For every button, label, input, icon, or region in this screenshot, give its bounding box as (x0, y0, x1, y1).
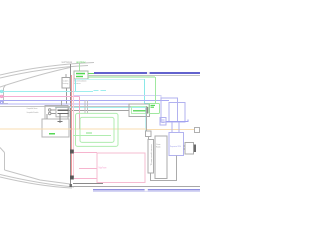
dark element in G2 (146, 107, 148, 114)
contact circle 1 (49, 109, 51, 111)
wire pink to fridge mid (79, 167, 97, 169)
svg-text:Compatible Schedule: Compatible Schedule (27, 111, 40, 114)
cyan dash 1 (94, 90, 99, 92)
hull deck sheer line upper (0, 63, 94, 76)
hull deck sheer line lower (0, 66, 88, 79)
wires B3 to B4 (184, 145, 186, 147)
raymarine box B3 (169, 133, 184, 156)
heating loop innermost line (73, 134, 111, 136)
heating loop inner rect (80, 117, 114, 142)
svg-text:Fridge Freezer: Fridge Freezer (99, 167, 107, 170)
junction node black upper (70, 150, 74, 154)
contact wire 2 (51, 113, 56, 115)
wire green G1 to bus bar (88, 72, 94, 74)
contact wire 1 (51, 109, 56, 111)
tick gap on bottom bus (145, 189, 148, 191)
svg-text:heatng: heatng (63, 82, 69, 85)
connector box at right end of orange (195, 128, 200, 133)
svg-text:Compatible Server: Compatible Server (27, 107, 38, 110)
bright green bar in GB (133, 110, 146, 112)
leader wire above controller (65, 74, 67, 78)
wire red vertical pair line 1 (71, 75, 73, 177)
wire blue under B1 (166, 120, 188, 122)
heating loop outer rect (76, 113, 119, 146)
wire dark keel line (73, 182, 103, 184)
wire magenta bus y96 (0, 95, 80, 97)
svg-text:Lamp Dimmer: Lamp Dimmer (76, 61, 86, 64)
bow stem diagonal (4, 85, 6, 88)
keel front vertical (4, 153, 6, 171)
wire light cyan y79 (76, 78, 144, 80)
node cyan terminal left edge (0, 90, 2, 92)
node purple terminal left edge (0, 101, 2, 103)
hull chine line bow (0, 68, 70, 88)
instrument gray box GB (129, 104, 150, 117)
keel slant line (5, 170, 71, 184)
wire bottom DC bus light (93, 191, 200, 193)
wire cyan branch down x145.5 (145, 108, 147, 131)
svg-text:Radio: Radio (156, 147, 161, 149)
dark bar on B4 (194, 145, 196, 153)
blue small box B2 (160, 118, 166, 126)
fridge box (pink) (97, 153, 145, 183)
transducer tall box T1 (148, 140, 154, 174)
wire gray under top bus (88, 75, 200, 77)
wire gray bus y106 (0, 105, 146, 107)
tall box T3 (155, 136, 167, 179)
small box SB above transducer (146, 131, 152, 137)
wire bottom DC bus blue (93, 189, 200, 191)
blue instrument box Q (169, 103, 185, 123)
wire pink vertical pair line 2 (73, 75, 75, 177)
keel bow diagonal (0, 148, 5, 153)
thin gray verticals under lamp dimmer (84, 100, 86, 113)
wire blue main DC bus top (94, 72, 200, 74)
wire cyan bus y107.5 (55, 107, 146, 109)
wire cyan vertical right x144 (145, 79, 151, 104)
wire cyan vertical at lamp dimmer (75, 79, 77, 91)
wire B1 to B3 left (171, 122, 173, 133)
wire lavender bus y95.6 (74, 95, 161, 98)
hull bottom curve upper (0, 175, 74, 188)
wire pink vertical x79.5 (79, 96, 81, 129)
wire cyan bus left y91 (0, 90, 93, 92)
wire bottom connector of T boxes (151, 156, 177, 181)
green inner rect in GB (132, 107, 148, 114)
green label inside K2 (49, 133, 55, 135)
busbar block inside K1 (56, 107, 69, 117)
lamp dimmer box U1 (74, 71, 88, 79)
wire green lighting bus B (88, 76, 155, 78)
wire orange bus (0, 128, 195, 131)
wire purple bus 1 y100.7 (0, 100, 169, 102)
cabin heating controller box U2 (62, 78, 70, 89)
green vertical from lighting bus x155 (154, 77, 156, 104)
svg-text:Raymarine ST60: Raymarine ST60 (170, 145, 182, 148)
blue instrument box P (161, 98, 178, 122)
wire from controller down (67, 88, 71, 104)
stub wire K1 to K2 b with bar (59, 114, 61, 123)
relay box K1 (45, 106, 68, 120)
wire pink to fridge bottom (74, 177, 97, 179)
wire pink to fridge top (74, 151, 97, 153)
node magenta terminal left edge (0, 95, 2, 97)
battery box K2 (42, 119, 69, 137)
bulkhead vertical line x70 (70, 64, 72, 187)
leader wire from lamp dimmer label (79, 64, 81, 72)
wire B1 to B3 right (178, 122, 180, 133)
bow stem vertical (4, 88, 9, 104)
gray box B4 (185, 143, 194, 155)
stub wire K1 top to purple bus (61, 101, 63, 106)
svg-text:Transducer: Transducer (150, 143, 153, 166)
junction node black lower (70, 176, 74, 180)
cyan dash 2 (101, 90, 107, 92)
svg-text:Icecol Thermostat: Icecol Thermostat (62, 61, 73, 64)
hull bottom curve lower (0, 177, 72, 188)
wire purple bus 2 y104 (0, 103, 149, 105)
stub wire K1 to K2 a (46, 114, 48, 119)
wire busbar to instrument box (69, 109, 129, 111)
contact circle 2 (49, 112, 51, 114)
label GPS green small (86, 132, 92, 134)
svg-text:Services: Services (74, 82, 81, 85)
wire SB to T1 (147, 137, 149, 140)
hull bottom straight line to transom (71, 186, 200, 188)
green connector box G2 (149, 104, 160, 114)
tick gap on top bus (147, 72, 150, 74)
junction node black keel (70, 184, 72, 187)
gray vertical from bus into SB (145, 106, 147, 131)
